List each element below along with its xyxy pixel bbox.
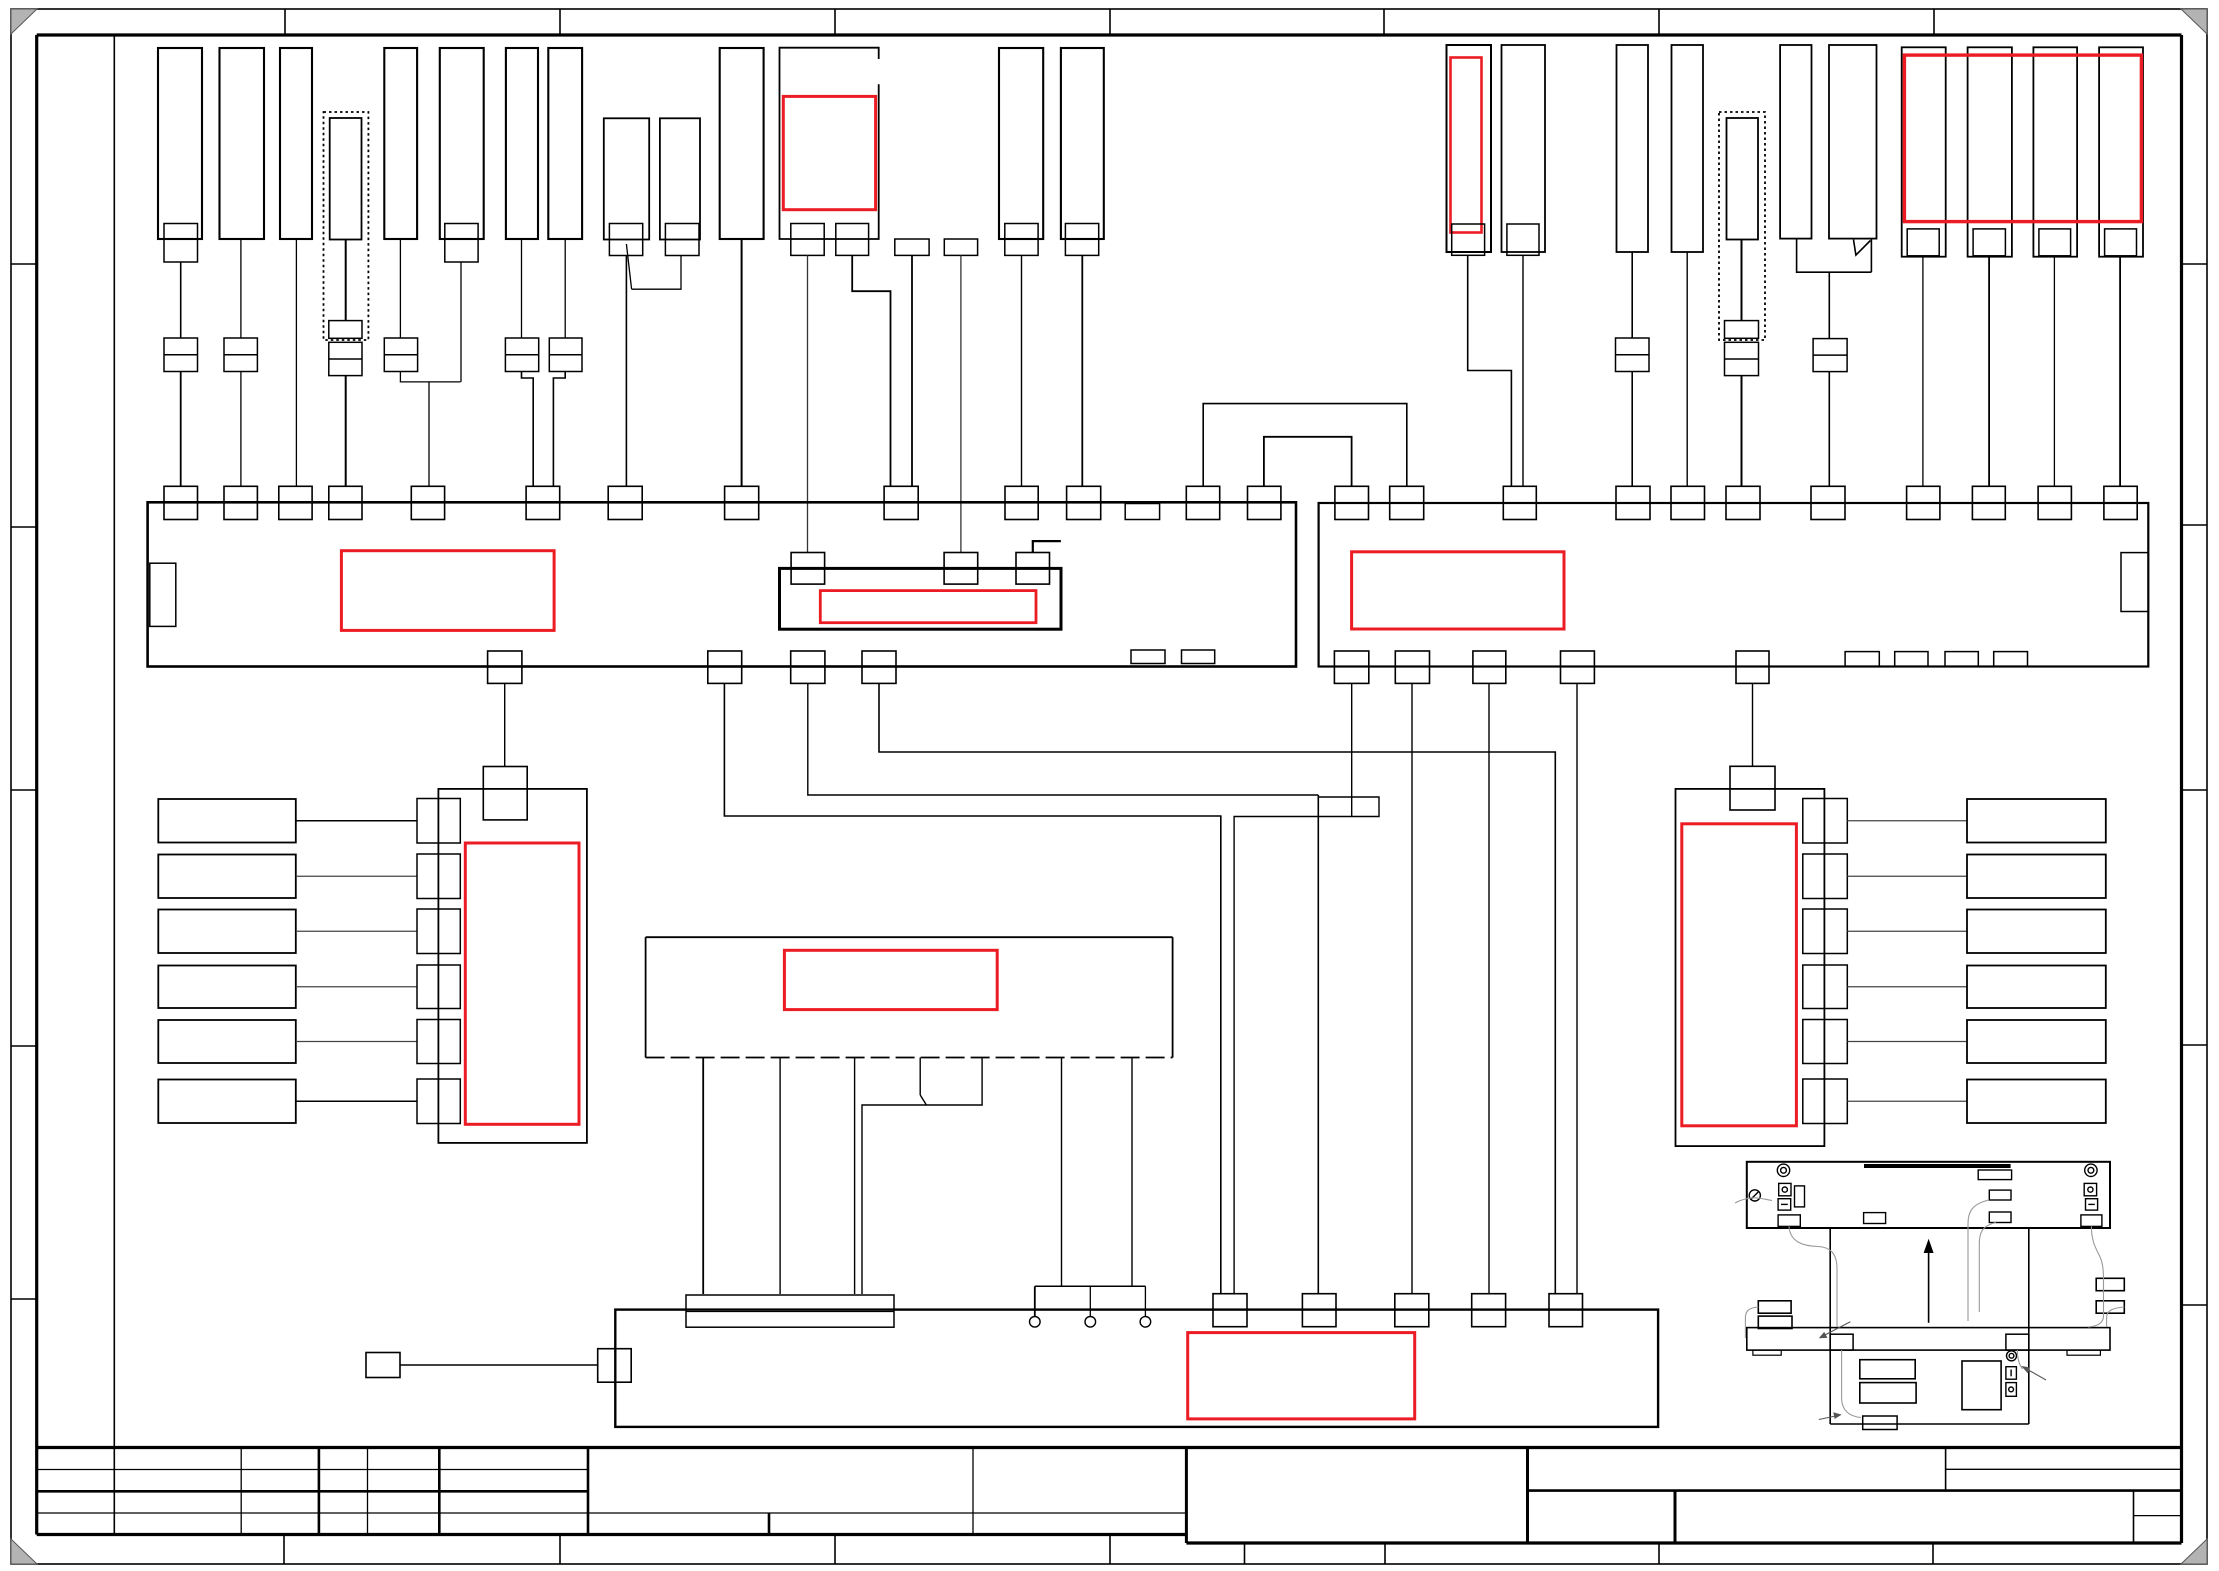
terminal X3 xyxy=(279,486,312,519)
wire X26 to bottom block (net W1) xyxy=(724,683,1220,1294)
PCB harness trace 4 xyxy=(1979,1223,1996,1313)
title block divider j xyxy=(1945,1448,1947,1491)
connector C22 xyxy=(1968,47,2012,256)
wire MR pin 1 to switch S7 xyxy=(1847,820,1967,822)
PCB module box a xyxy=(1860,1360,1915,1379)
stub terminal on BB1 bottom b xyxy=(1182,650,1215,664)
wire C22 to bus terminal xyxy=(1988,256,1990,486)
terminal XB5 xyxy=(1549,1294,1583,1327)
terminal X29 xyxy=(1334,651,1368,683)
connector C24 xyxy=(2099,47,2143,256)
pin box P2 xyxy=(944,239,977,255)
wire merged to fuse F9 xyxy=(1828,272,1830,338)
switch S5 xyxy=(158,1020,295,1063)
PCB top bus bar xyxy=(1864,1164,2011,1168)
connector C21 xyxy=(1902,47,1946,256)
connector C13 xyxy=(1061,48,1104,239)
terminal X4 xyxy=(329,486,362,519)
switch S6 xyxy=(158,1080,295,1124)
red highlight in BH xyxy=(1188,1333,1415,1419)
PCB tray left wall xyxy=(1829,1228,1831,1424)
PCB relay box xyxy=(1962,1361,2001,1410)
flat connector on BH xyxy=(686,1295,894,1327)
fuse F8 xyxy=(1725,342,1759,375)
wire F2 to bus terminal xyxy=(240,372,242,487)
wire C23 to bus terminal xyxy=(2053,256,2055,486)
PCB lower rail xyxy=(1747,1328,2110,1351)
wire junction drop to terminal X5 xyxy=(428,382,430,486)
sensor box SB1 xyxy=(366,1353,400,1378)
terminal X24 xyxy=(1390,486,1424,519)
wire MC pin2 down xyxy=(779,1058,781,1295)
wire C8 to fuse F6 xyxy=(564,239,566,338)
wire F8 to terminal X15 xyxy=(1741,376,1743,487)
stub terminal on BB2 bottom d xyxy=(1994,652,2028,667)
wire C14 jog to terminal X12 xyxy=(1468,255,1512,486)
wire MC pin7 down xyxy=(1131,1058,1133,1287)
diagnostic pin 2 xyxy=(1089,1286,1091,1316)
module M1 outline xyxy=(780,48,879,239)
wire C3 to bus terminal xyxy=(295,239,297,486)
fuse F9 xyxy=(1813,339,1847,372)
branch wire to C10 xyxy=(632,256,681,290)
connector C4 xyxy=(330,118,362,240)
connector C1 xyxy=(158,48,202,239)
title block right row line xyxy=(1946,1468,2182,1470)
terminal X22 xyxy=(1248,486,1281,519)
terminal X10 xyxy=(1005,486,1038,519)
PCB harness trace 2 xyxy=(1789,1226,1837,1327)
wire C11 to bus terminal xyxy=(741,239,743,486)
title block divider l xyxy=(2133,1491,2135,1543)
terminal block C12 pins xyxy=(1005,224,1038,256)
module ML pin 1 xyxy=(417,799,460,844)
PCB rail tab left xyxy=(1753,1350,1781,1355)
terminal XB1 xyxy=(1213,1294,1247,1327)
wire C5 to fuse F4 xyxy=(399,239,401,338)
wire S5 to ML xyxy=(296,1041,417,1043)
terminal block C22 pins xyxy=(1973,229,2005,256)
title block divider a xyxy=(240,1448,242,1535)
red highlight in module MR xyxy=(1682,824,1797,1126)
PCB flow arrow xyxy=(1928,1248,1930,1323)
link wire X21 to X23 xyxy=(1203,404,1407,487)
title block divider h xyxy=(1185,1448,1188,1544)
red highlight in module ML xyxy=(465,843,579,1124)
wire F9 to terminal X16 xyxy=(1828,372,1830,487)
PCB switch mount hole xyxy=(2007,1351,2017,1361)
title block mid row line right xyxy=(1528,1489,2182,1492)
wire M1-a down to relay box terminal xyxy=(807,255,809,552)
fuse F3 xyxy=(329,342,362,375)
stub terminal on BB1 top xyxy=(1125,504,1159,520)
wire C20 drop xyxy=(1870,239,1872,273)
right margin fold ticks xyxy=(2182,263,2208,265)
fuse/relay box BB1 xyxy=(148,502,1296,666)
PCB rail tab right xyxy=(2067,1350,2100,1355)
fuse F2 xyxy=(224,338,257,372)
connector C14 xyxy=(1447,45,1492,252)
connector C20 latch mark xyxy=(1854,240,1871,256)
title block divider c xyxy=(367,1448,369,1535)
red highlight in BB1 xyxy=(341,551,554,631)
switch S7 xyxy=(1967,799,2106,843)
PCB component box d xyxy=(1864,1213,1886,1224)
connector C2 xyxy=(220,48,265,239)
inner frame right edge xyxy=(2180,35,2183,1543)
PCB upper board outline xyxy=(1747,1162,2110,1228)
terminal X27 xyxy=(791,651,825,683)
wire S4 to ML xyxy=(296,986,417,988)
wire MR pin 3 to switch S9 xyxy=(1847,930,1967,932)
connector C10 xyxy=(660,118,700,239)
switch S2 xyxy=(158,855,295,899)
connector C9 xyxy=(604,118,649,239)
relay box RB1 xyxy=(780,568,1062,629)
stub terminal on BB2 bottom c xyxy=(1945,652,1978,667)
terminal X15 xyxy=(1726,486,1760,519)
PCB right LED box xyxy=(2084,1183,2096,1195)
diagnostic pin 3 xyxy=(1144,1286,1146,1316)
module ML pin 5 xyxy=(417,1020,460,1064)
wire X30 down xyxy=(1411,683,1413,1294)
connector C11 xyxy=(720,48,764,239)
PCB harness trace 8 xyxy=(1842,1350,1861,1417)
PCB pointer arrow 1 xyxy=(2024,1368,2046,1381)
wire C15 to terminal X12 xyxy=(1522,255,1524,486)
wire X31 down xyxy=(1488,683,1490,1294)
terminal block C15 pins xyxy=(1507,224,1539,255)
connector C12 xyxy=(999,48,1043,239)
wire MC pin3 down xyxy=(854,1058,856,1295)
red highlight on module M1 xyxy=(783,96,875,209)
connector C4 lower pin box xyxy=(329,321,362,339)
connector C18 xyxy=(1727,118,1759,240)
terminal X32 xyxy=(1561,651,1595,683)
terminal block C23 pins xyxy=(2039,229,2071,256)
title block row line 2 xyxy=(37,1490,588,1493)
left margin fold ticks xyxy=(11,263,37,265)
wire MR pin 6 to switch S12 xyxy=(1847,1100,1967,1102)
terminal X25 xyxy=(488,651,522,683)
fuse F6 xyxy=(549,338,582,372)
PCB component box b xyxy=(1989,1190,2011,1200)
wire C18 down xyxy=(1741,240,1743,321)
terminal X1 xyxy=(164,486,198,519)
PCB side box right b xyxy=(2096,1301,2124,1313)
connector C7 xyxy=(506,48,538,239)
PCB harness trace 3 xyxy=(1968,1200,1989,1321)
wire P2 to relay box terminal xyxy=(960,255,962,552)
terminal X2 xyxy=(224,486,257,519)
PCB component box c xyxy=(1989,1212,2011,1223)
PCB module box b xyxy=(1860,1383,1916,1403)
link wire X22 to X24 xyxy=(1264,437,1352,487)
PCB mount hole right xyxy=(2085,1164,2097,1176)
diagnostic link bar xyxy=(1035,1285,1146,1287)
terminal X14 xyxy=(1671,486,1705,519)
wire S3 to ML xyxy=(296,930,417,932)
module MR pin 6 xyxy=(1803,1079,1848,1124)
wire S6 to ML xyxy=(296,1100,417,1102)
inner frame left edge xyxy=(35,35,38,1535)
corner triangle top-left xyxy=(11,9,37,34)
wire C16 to fuse F7 xyxy=(1631,252,1633,338)
PCB rail terminal left xyxy=(1830,1334,1853,1350)
wire X25 to left module xyxy=(504,683,506,766)
fuse F4 xyxy=(384,338,417,372)
bottom margin fold ticks xyxy=(283,1535,285,1565)
module MC body xyxy=(645,937,647,1057)
title block divider i xyxy=(1526,1448,1529,1544)
module ML pin 6 xyxy=(417,1079,460,1124)
switch S10 xyxy=(1967,966,2106,1009)
terminal block C13 pins xyxy=(1065,224,1098,256)
terminal XB2 xyxy=(1302,1294,1336,1327)
red highlight on connector C14 xyxy=(1451,58,1482,233)
PCB mount hole left xyxy=(1777,1164,1789,1176)
diagnostic pin 2 contact xyxy=(1085,1317,1096,1328)
BB2 right tab xyxy=(2121,553,2148,612)
PCB side box left b xyxy=(1758,1316,1792,1328)
diagnostic pin 1 xyxy=(1034,1286,1036,1316)
connector C20 xyxy=(1829,45,1877,239)
terminal X16 xyxy=(1811,486,1845,519)
BB1 left tab xyxy=(150,563,176,626)
module ML pin 4 xyxy=(417,965,460,1009)
PCB prohibition symbol xyxy=(1749,1190,1760,1201)
merge diagonal MC pin4 xyxy=(920,1095,926,1105)
connector C15 xyxy=(1502,45,1546,252)
module ML pin 3 xyxy=(417,909,460,954)
terminal X28 xyxy=(862,651,896,683)
terminal block C1 pins xyxy=(164,224,198,263)
switch S11 xyxy=(1967,1020,2106,1063)
connector C18 lower pin box xyxy=(1725,321,1759,339)
PCB right connector pad xyxy=(2081,1215,2102,1227)
terminal block C10 pins xyxy=(665,224,699,256)
PCB harness trace 7 xyxy=(1745,1307,1758,1338)
module MR pin 4 xyxy=(1803,965,1848,1009)
PCB component box a xyxy=(1978,1170,2011,1180)
red highlight frame over connectors C21-C24 xyxy=(1904,55,2141,222)
title block bottom line right xyxy=(1186,1541,2181,1544)
stub terminal on BB2 bottom b xyxy=(1895,652,1928,667)
flat connector mid line xyxy=(686,1311,894,1313)
terminal block C9 pins xyxy=(609,224,642,256)
wire MR pin 2 to switch S8 xyxy=(1847,875,1967,877)
pin box P1 xyxy=(895,239,929,255)
PCB pointer arrow 3 xyxy=(1822,1322,1850,1337)
corner triangle bottom-left xyxy=(11,1539,37,1564)
title block divider g xyxy=(972,1448,974,1535)
PCB harness trace 9 xyxy=(2017,1350,2022,1369)
PCB side box left a xyxy=(1758,1301,1791,1313)
title block divider k xyxy=(1674,1491,1677,1543)
PCB left LED box xyxy=(1779,1183,1791,1195)
title block divider d xyxy=(438,1448,441,1535)
module MR top connector xyxy=(1730,766,1775,810)
terminal X5 xyxy=(411,486,444,519)
PCB bottom connector xyxy=(1863,1416,1897,1430)
wire C1 to fuse F1 xyxy=(180,262,182,338)
title block row line 3 xyxy=(37,1512,1187,1514)
title block divider e xyxy=(587,1448,590,1535)
terminal X31 xyxy=(1473,651,1506,683)
PCB left connector pad xyxy=(1778,1215,1800,1227)
connector C23 xyxy=(2033,47,2077,256)
wire C9 to bus terminal xyxy=(625,256,627,487)
wire F5 to terminal X6 xyxy=(522,372,534,487)
PCB side box right a xyxy=(2096,1278,2124,1290)
red highlight in module MC xyxy=(784,950,997,1009)
connector C16 xyxy=(1617,45,1649,252)
module M1 pin box b xyxy=(836,224,869,256)
wire F3 to bus terminal xyxy=(345,376,347,487)
module MC bottom edge (pin strip) xyxy=(646,1057,1173,1059)
fuse F5 xyxy=(505,338,538,372)
PCB left switch box xyxy=(1778,1199,1791,1210)
module ML body xyxy=(438,789,587,1143)
wire MR pin 5 to switch S11 xyxy=(1847,1041,1967,1043)
terminal X21 xyxy=(1186,486,1219,519)
wire MC pin6 down xyxy=(1061,1058,1063,1287)
terminal X26 xyxy=(708,651,742,683)
switch S9 xyxy=(1967,910,2106,954)
terminal block C24 pins xyxy=(2105,229,2137,256)
terminal X8 xyxy=(725,486,759,519)
wire C12 to bus terminal xyxy=(1021,255,1023,486)
terminal X13 xyxy=(1616,486,1650,519)
switch S3 xyxy=(158,910,295,954)
module MR body xyxy=(1676,789,1825,1146)
wire MC pin1 down xyxy=(702,1058,704,1295)
wire X27 down (net W3) xyxy=(807,683,809,716)
wire X29 tap xyxy=(1351,683,1353,816)
diagnostic pin 1 contact xyxy=(1030,1317,1041,1328)
stub terminal on BB1 bottom a xyxy=(1131,650,1165,664)
PCB switch I xyxy=(2006,1367,2017,1380)
terminal RB1-1 xyxy=(791,553,825,585)
wire MC pin5 jog xyxy=(862,1058,982,1295)
terminal XB4 xyxy=(1472,1294,1506,1327)
wire P1 to terminal X9 xyxy=(911,255,913,486)
title block divider b xyxy=(318,1448,321,1535)
inner frame top edge xyxy=(37,33,2182,36)
PCB harness trace 5 xyxy=(2088,1226,2104,1327)
wire F7 to terminal X13 xyxy=(1631,372,1633,487)
title block top line xyxy=(37,1446,2182,1449)
corner triangle bottom-right xyxy=(2181,1539,2207,1564)
wire C13 to bus terminal xyxy=(1081,255,1083,486)
connector C19 xyxy=(1780,45,1811,239)
terminal X17 xyxy=(1907,486,1940,519)
module ML top connector xyxy=(483,767,527,820)
wire C7 to fuse F5 xyxy=(521,239,523,338)
wire net W3 vertical xyxy=(1317,795,1319,1294)
terminal X20 xyxy=(2104,486,2137,519)
terminal X12 xyxy=(1503,486,1536,519)
switch S8 xyxy=(1967,855,2106,899)
PCB harness trace 1 xyxy=(1735,1198,1772,1203)
terminal X6 xyxy=(526,486,560,519)
wire F6 to terminal X6 xyxy=(553,372,565,487)
title block small row line xyxy=(2134,1515,2182,1517)
module MR pin 2 xyxy=(1803,854,1848,899)
diagnostic pin 3 contact xyxy=(1140,1317,1151,1328)
fuse F7 xyxy=(1616,338,1650,372)
stub terminal on BB2 bottom a xyxy=(1845,652,1879,667)
PCB rail terminal right xyxy=(2006,1334,2029,1350)
title block bottom line left xyxy=(37,1533,1187,1536)
wire S1 to ML xyxy=(296,820,417,822)
terminal XB3 xyxy=(1395,1294,1429,1327)
wire C4 down xyxy=(345,240,347,321)
terminal X18 xyxy=(1972,486,2005,519)
PCB right switch box xyxy=(2086,1199,2098,1210)
switch S12 xyxy=(1967,1080,2106,1124)
terminal block C6 pins xyxy=(445,224,478,263)
branch diagonal from C9 wire xyxy=(626,244,631,289)
wire C6 down to junction xyxy=(460,262,462,382)
wire SB1 to BH connector xyxy=(400,1364,598,1366)
wire C24 to bus terminal xyxy=(2119,256,2121,486)
PCB harness trace 6 xyxy=(2107,1307,2125,1327)
title block row line 1 xyxy=(37,1469,588,1471)
wire MR pin 4 to switch S10 xyxy=(1847,986,1967,988)
fuse/relay box BB2 xyxy=(1319,503,2149,667)
red highlight in RB1 xyxy=(820,591,1036,623)
terminal RB1-3 xyxy=(1016,553,1050,585)
module MR pin 5 xyxy=(1803,1020,1848,1064)
module MR pin 1 xyxy=(1803,799,1848,844)
wire X33 to right module xyxy=(1752,683,1754,766)
terminal X9 xyxy=(884,486,918,519)
module MR pin 3 xyxy=(1803,909,1848,954)
terminal block C21 pins xyxy=(1907,229,1939,256)
wire C19 down to merge xyxy=(1797,239,1872,273)
wire net W3 drop xyxy=(808,716,1319,795)
corner triangle top-right xyxy=(2181,9,2207,34)
wire C17 to terminal X14 xyxy=(1686,252,1688,486)
PCB tray right wall xyxy=(2028,1228,2030,1424)
wire MC pin4 with merge xyxy=(919,1058,921,1096)
optional connector outline 2 (dotted) xyxy=(1719,112,1765,340)
switch S4 xyxy=(158,966,295,1009)
harness block BH body xyxy=(615,1310,1658,1427)
terminal X7 xyxy=(608,486,642,519)
fuse F1 xyxy=(164,338,198,372)
connector C8 xyxy=(548,48,582,239)
terminal block C14 pins xyxy=(1452,224,1485,255)
connector C17 xyxy=(1672,45,1704,252)
frame column divider xyxy=(113,35,115,1535)
red highlight in BB2 xyxy=(1352,552,1564,629)
wire M1-b jog to terminal X9 xyxy=(852,255,890,486)
wire C2 to fuse F2 xyxy=(240,239,242,338)
PCB tray bottom xyxy=(1830,1423,2029,1425)
top margin fold ticks xyxy=(284,9,286,35)
wire X32 down xyxy=(1576,683,1578,1294)
module M1 pin box a xyxy=(791,224,824,256)
terminal X23 xyxy=(1335,486,1369,519)
connector C6 xyxy=(440,48,484,239)
PCB left component tall xyxy=(1795,1186,1805,1207)
PCB pointer arrow 2 xyxy=(1819,1416,1838,1420)
wire F1 to bus terminal xyxy=(180,372,182,487)
terminal X19 xyxy=(2038,486,2071,519)
BH left connector xyxy=(598,1349,632,1383)
